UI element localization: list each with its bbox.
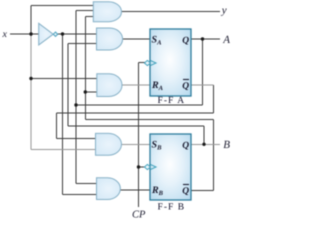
svg-text:F-F B: F-F B	[158, 202, 186, 212]
svg-text:B: B	[223, 139, 230, 151]
svg-text:Q: Q	[182, 82, 189, 92]
svg-text:y: y	[221, 5, 227, 17]
svg-text:CP: CP	[132, 210, 146, 220]
svg-text:x: x	[2, 29, 8, 40]
svg-text:Q: Q	[182, 141, 189, 151]
svg-text:A: A	[222, 34, 230, 46]
svg-text:Q: Q	[182, 36, 189, 46]
svg-text:F-F A: F-F A	[158, 96, 186, 106]
svg-text:Q: Q	[182, 187, 189, 197]
